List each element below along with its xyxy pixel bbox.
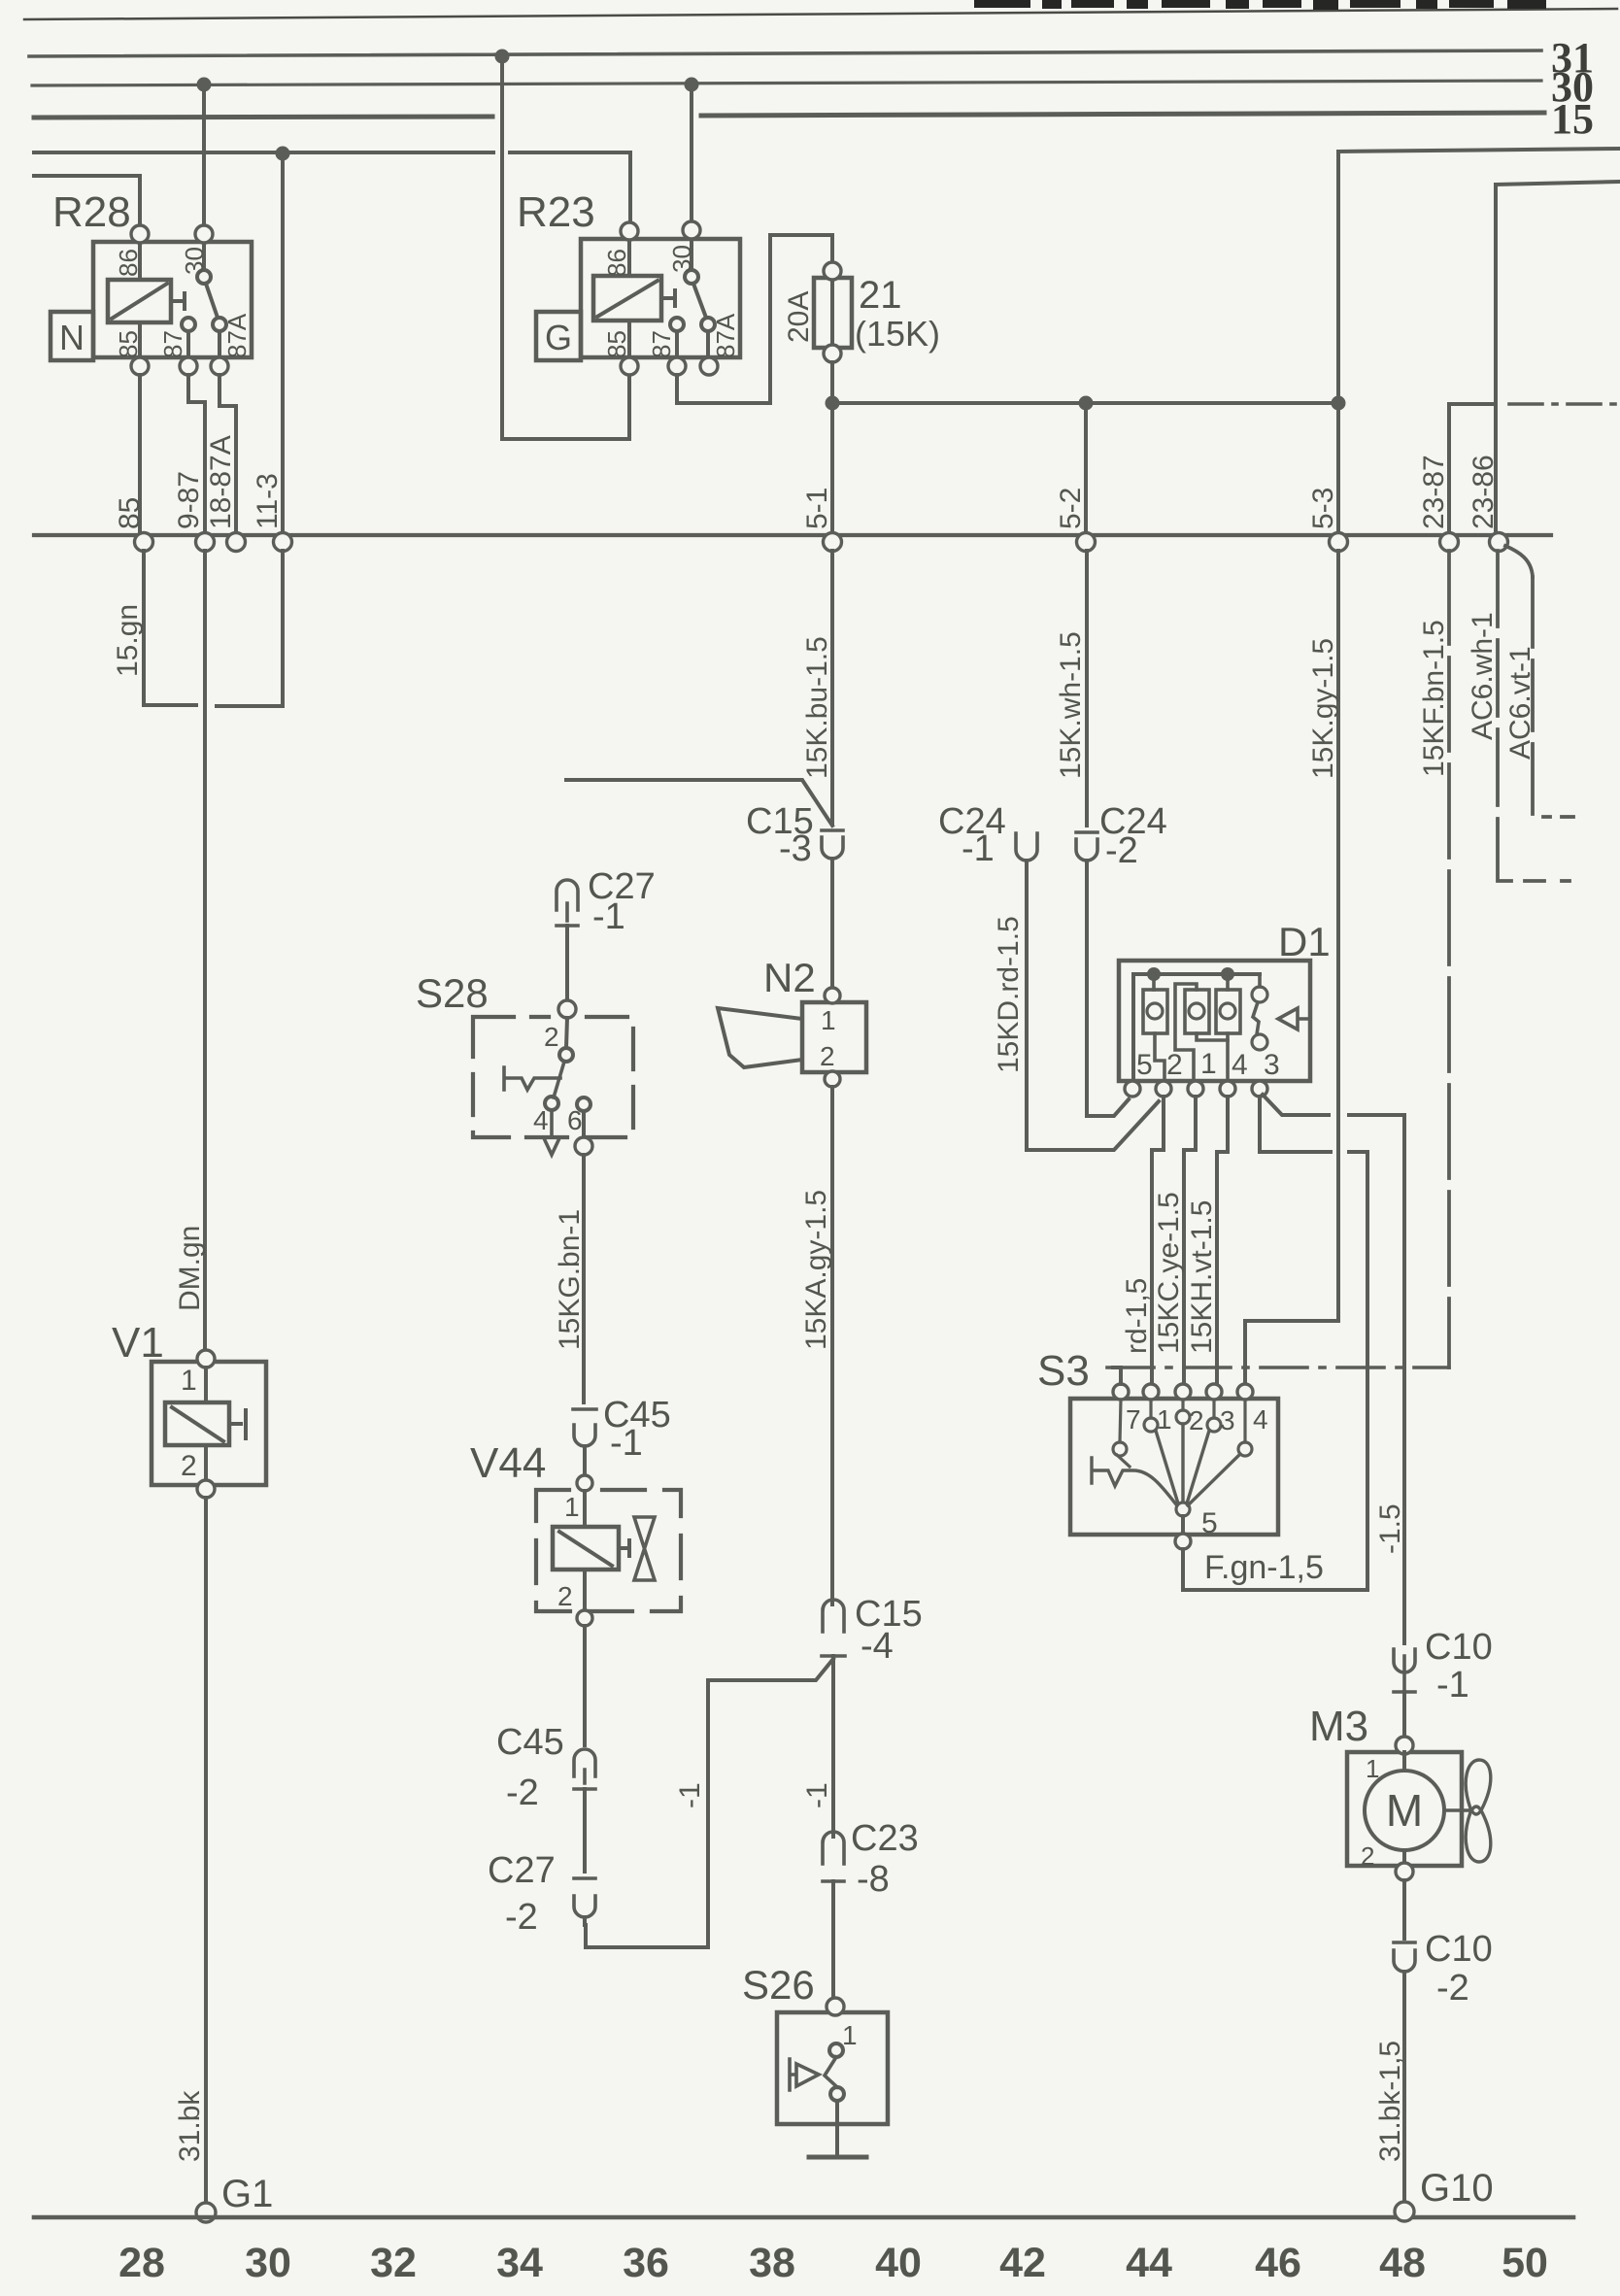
svg-text:AC6.vt-1: AC6.vt-1 bbox=[1504, 646, 1536, 760]
svg-text:-8: -8 bbox=[857, 1859, 890, 1900]
switch S28 thermal element bbox=[504, 1067, 560, 1090]
svg-text:S26: S26 bbox=[742, 1962, 815, 2008]
svg-text:1: 1 bbox=[564, 1492, 580, 1522]
valve V44 bottom terminal bbox=[577, 1610, 592, 1626]
D1 resistor a bbox=[1143, 990, 1167, 1033]
connector C15-4 bbox=[822, 1600, 845, 1656]
top right feeder y190 bbox=[1496, 182, 1620, 185]
svg-text:-1: -1 bbox=[1436, 1665, 1469, 1705]
relay R28 top terminals bbox=[131, 225, 149, 243]
svg-text:2: 2 bbox=[1361, 1841, 1374, 1871]
dashed wire AC6.wh bbox=[1498, 551, 1544, 881]
svg-text:R28: R28 bbox=[52, 188, 131, 236]
svg-text:-2: -2 bbox=[506, 1773, 539, 1813]
bus connector 9-87 bbox=[196, 533, 215, 552]
switch S28 pin6 wire bbox=[582, 1111, 586, 1137]
svg-text:R23: R23 bbox=[517, 188, 595, 236]
wire -1.5 to C10-1 bbox=[1402, 1641, 1406, 1645]
wire C15-3 to N2 bbox=[830, 859, 834, 988]
S3 wiper arms bbox=[1156, 1424, 1240, 1505]
R23 pin labels bbox=[602, 245, 740, 358]
switch S28 pin4 arrow terminal bbox=[545, 1110, 558, 1155]
connector C24-2 bbox=[1076, 832, 1097, 861]
svg-text:28: 28 bbox=[118, 2240, 165, 2286]
valve V44 top terminal bbox=[577, 1475, 592, 1491]
svg-text:-2: -2 bbox=[1436, 1968, 1469, 2009]
wire 15KG.bn to C45-1 bbox=[582, 1155, 586, 1402]
svg-text:2: 2 bbox=[820, 1041, 835, 1071]
switch S26 contacts bbox=[829, 2043, 843, 2057]
svg-text:F.gn-1,5: F.gn-1,5 bbox=[1204, 1549, 1324, 1586]
wire 15K.gy from bus to S3 pin4 bbox=[1245, 551, 1338, 1384]
relay R23 coil bbox=[593, 276, 661, 321]
wire 5-2 drop bbox=[1084, 403, 1088, 531]
blower motor M3 top terminal bbox=[1396, 1737, 1413, 1754]
wire R28 87A down jog bbox=[219, 375, 236, 531]
svg-text:2: 2 bbox=[1189, 1405, 1204, 1435]
wire R23 87 to fuse top bbox=[677, 235, 832, 403]
feeder line y157 bbox=[34, 152, 630, 223]
dash-dot option boundary y1408 bbox=[1107, 1366, 1449, 1369]
junction dot fuse bbox=[826, 396, 840, 411]
svg-text:1: 1 bbox=[1200, 1048, 1217, 1080]
relay R28 coil bbox=[108, 280, 171, 322]
wire R23 pin30 from line30 bbox=[690, 84, 693, 221]
S3 wiper contacts bbox=[1113, 1442, 1127, 1456]
junction dot line30 R23 bbox=[685, 78, 699, 92]
svg-text:5-3: 5-3 bbox=[1307, 488, 1339, 529]
connector C10-2 bbox=[1394, 1942, 1415, 1972]
S3 pin7 stub to option line bbox=[1113, 1367, 1121, 1384]
feeder line y181 to R28 pin86 bbox=[34, 176, 140, 225]
svg-text:4: 4 bbox=[1232, 1049, 1248, 1081]
svg-text:30: 30 bbox=[245, 2240, 291, 2286]
svg-text:48: 48 bbox=[1379, 2240, 1426, 2286]
feeder rail y415 bbox=[832, 401, 1338, 405]
wire R28 87 down jog bbox=[188, 375, 205, 531]
wire R28 85 down bbox=[138, 375, 142, 531]
svg-text:S3: S3 bbox=[1037, 1347, 1090, 1395]
S3 illumination element bbox=[1092, 1458, 1176, 1504]
top right feeder y157 bbox=[1338, 149, 1620, 152]
wire C45-1 to V44 bbox=[583, 1446, 587, 1475]
svg-text:15.gn: 15.gn bbox=[112, 604, 144, 677]
wire 31.bk-1.5 to G10 bbox=[1402, 1972, 1406, 2202]
svg-text:46: 46 bbox=[1255, 2240, 1301, 2286]
switch S28 top terminal bbox=[558, 1000, 576, 1018]
header separator line bbox=[24, 9, 1617, 19]
wire R23 drop from line31 bbox=[502, 56, 629, 439]
relay R28 pin85 internal bbox=[138, 322, 142, 357]
D1 pin5 internal bbox=[1131, 974, 1135, 1081]
relay R28 coil actuator stub bbox=[171, 293, 185, 309]
wire 23-87 stub bbox=[1449, 404, 1496, 531]
D1 thermal switch bbox=[1252, 987, 1267, 1002]
main bus y551 bbox=[34, 533, 1551, 537]
connector C23-8 bbox=[823, 1832, 844, 1881]
D1 internal top bus bbox=[1133, 972, 1260, 976]
bus line 15 bbox=[34, 113, 1544, 118]
relay R23 pin85 internal bbox=[627, 321, 631, 357]
wire D1 pin2 to S3 pin1 bbox=[1152, 1097, 1164, 1384]
svg-text:C27: C27 bbox=[488, 1850, 556, 1891]
relay R28 switch bbox=[197, 270, 211, 284]
svg-text:V44: V44 bbox=[470, 1439, 546, 1487]
svg-text:3: 3 bbox=[1264, 1049, 1280, 1081]
bus connector 5-1 bbox=[824, 533, 842, 552]
wire D1 pin4 to S3 pin3 bbox=[1217, 1097, 1228, 1384]
wire C15-4 to C23-8 bbox=[831, 1656, 835, 1837]
svg-text:42: 42 bbox=[999, 2240, 1046, 2286]
connector C24-1 cup bbox=[1016, 833, 1037, 861]
wire 15K.wh to D1 pin5 bbox=[1087, 861, 1129, 1116]
connector C27-2 bbox=[574, 1878, 595, 1917]
fuse 21 body bbox=[814, 278, 852, 348]
svg-text:18-87A: 18-87A bbox=[205, 435, 237, 529]
svg-text:-1: -1 bbox=[592, 896, 625, 937]
horn N2 box bbox=[802, 1002, 866, 1072]
dash-dot boundary y416 bbox=[1509, 402, 1620, 406]
bus connector 23-86 bbox=[1490, 533, 1508, 552]
svg-text:1: 1 bbox=[181, 1365, 197, 1397]
wire M3 to C10-2 bbox=[1402, 1880, 1406, 1939]
bus wire labels above bbox=[114, 435, 1500, 529]
svg-text:87: 87 bbox=[158, 330, 187, 358]
D1 pin labels bbox=[1136, 1048, 1280, 1081]
wire C27-1 to S28 bbox=[565, 926, 569, 1001]
svg-text:5-1: 5-1 bbox=[801, 488, 833, 529]
svg-text:V1: V1 bbox=[112, 1319, 164, 1367]
junction dot 5-2 bbox=[1079, 396, 1094, 411]
R28 pin labels bbox=[114, 247, 252, 358]
wire V44 to C45-2 bbox=[583, 1626, 587, 1745]
connector C45-1 bbox=[573, 1409, 596, 1446]
ground terminal G1 bbox=[196, 2203, 216, 2222]
solenoid V1 top terminal bbox=[197, 1350, 215, 1367]
bus connector 23-87 bbox=[1440, 533, 1459, 552]
wire F.gn S3 pin5 to riser bbox=[1183, 1549, 1367, 1590]
svg-text:87A: 87A bbox=[222, 313, 252, 358]
relay R28 box bbox=[93, 242, 252, 357]
wire labels below bus bbox=[112, 604, 1536, 779]
svg-text:23-86: 23-86 bbox=[1468, 455, 1500, 529]
S3 pin labels bbox=[1126, 1404, 1268, 1539]
svg-text:rd-1,5: rd-1,5 bbox=[1121, 1278, 1153, 1354]
junction dot 11-3 bbox=[276, 147, 290, 161]
svg-text:-2: -2 bbox=[1105, 830, 1138, 871]
connector C27-1 bbox=[557, 880, 578, 926]
svg-text:6: 6 bbox=[567, 1105, 583, 1135]
valve V44 dashed box bbox=[536, 1490, 681, 1611]
wire 23-86 drop bbox=[1494, 185, 1498, 531]
svg-text:20A: 20A bbox=[783, 291, 815, 343]
svg-text:5: 5 bbox=[1201, 1507, 1218, 1539]
svg-text:3: 3 bbox=[1220, 1405, 1235, 1435]
blower motor M3 fan bbox=[1444, 1808, 1468, 1812]
svg-text:M: M bbox=[1386, 1785, 1423, 1836]
D1 resistor c bbox=[1216, 990, 1240, 1033]
svg-text:1: 1 bbox=[842, 2020, 858, 2050]
svg-text:AC6.wh-1: AC6.wh-1 bbox=[1467, 612, 1499, 740]
junction dot 5-3 bbox=[1332, 396, 1346, 411]
svg-text:87: 87 bbox=[647, 330, 676, 358]
svg-text:1: 1 bbox=[821, 1005, 836, 1035]
svg-text:1: 1 bbox=[1366, 1754, 1379, 1783]
wire 15KD.rd to D1 pin2 bbox=[1027, 861, 1159, 1150]
valve V44 valve symbol bbox=[634, 1517, 655, 1580]
D1 resistor b bbox=[1185, 990, 1209, 1033]
wire C10-1 to M3 bbox=[1402, 1692, 1406, 1738]
horn N2 terminals bbox=[825, 988, 840, 1003]
relay R28 pin86 internal bbox=[138, 242, 142, 280]
wire D1 pin3 to M3 bbox=[1263, 1095, 1404, 1643]
blower switch S3 box bbox=[1070, 1399, 1278, 1535]
svg-text:2: 2 bbox=[181, 1450, 197, 1482]
svg-text:32: 32 bbox=[370, 2240, 417, 2286]
svg-text:86: 86 bbox=[602, 249, 631, 277]
svg-text:15KG.bn-1: 15KG.bn-1 bbox=[554, 1209, 586, 1350]
svg-text:M3: M3 bbox=[1309, 1703, 1368, 1750]
svg-text:50: 50 bbox=[1502, 2240, 1548, 2286]
wire fuse to bus 5-1 bbox=[830, 362, 834, 531]
svg-text:2: 2 bbox=[557, 1581, 573, 1611]
bottom coordinate scale bbox=[118, 2240, 1548, 2286]
svg-text:-1: -1 bbox=[610, 1423, 643, 1464]
relay R23 box bbox=[581, 239, 740, 357]
switch S26 box bbox=[777, 2012, 888, 2124]
svg-text:15KD.rd-1.5: 15KD.rd-1.5 bbox=[993, 916, 1025, 1073]
S3 pin5 bbox=[1181, 1516, 1185, 1535]
bus connector 11-3 bbox=[274, 533, 292, 552]
blower motor M3 armature bbox=[1365, 1771, 1444, 1850]
svg-text:-1: -1 bbox=[674, 1782, 706, 1808]
connector C10-1 bbox=[1394, 1649, 1415, 1709]
horn N2 trumpet bbox=[718, 1008, 802, 1067]
ground terminal G10 bbox=[1395, 2202, 1414, 2221]
dashed wire AC6.vt bbox=[1505, 546, 1533, 577]
S3 top terminals bbox=[1113, 1384, 1129, 1400]
wire R28 pin30 from line30 bbox=[202, 84, 206, 225]
svg-text:15KC.ye-1.5: 15KC.ye-1.5 bbox=[1153, 1192, 1185, 1354]
svg-text:-2: -2 bbox=[505, 1897, 538, 1938]
relay R23 top terminals bbox=[621, 222, 638, 240]
svg-text:30: 30 bbox=[667, 245, 696, 273]
svg-text:23-87: 23-87 bbox=[1418, 455, 1450, 529]
svg-text:36: 36 bbox=[623, 2240, 669, 2286]
svg-text:40: 40 bbox=[875, 2240, 922, 2286]
svg-text:21: 21 bbox=[859, 274, 902, 317]
header title fragments bbox=[974, 0, 1546, 10]
svg-text:C10: C10 bbox=[1425, 1929, 1493, 1970]
svg-text:G: G bbox=[545, 318, 572, 357]
connector C15-3 bbox=[822, 830, 843, 859]
svg-text:9-87: 9-87 bbox=[173, 471, 205, 529]
fuse 21 terminals bbox=[824, 262, 841, 280]
valve V44 coil bbox=[553, 1527, 619, 1570]
svg-text:C45: C45 bbox=[496, 1722, 564, 1763]
svg-text:(15K): (15K) bbox=[855, 314, 940, 354]
wire C27-2 tail bbox=[583, 1917, 587, 1925]
wire C45-2 to C27-2 bbox=[583, 1789, 587, 1872]
switch S28 contacts bbox=[566, 1018, 567, 1048]
svg-text:7: 7 bbox=[1126, 1404, 1141, 1435]
bus connector 85 bbox=[135, 533, 153, 552]
svg-text:4: 4 bbox=[1253, 1404, 1268, 1435]
bus connector 18-87A bbox=[227, 533, 246, 552]
svg-text:86: 86 bbox=[114, 249, 143, 277]
svg-text:5: 5 bbox=[1136, 1049, 1153, 1081]
switch S28 dashed box bbox=[473, 1017, 633, 1137]
svg-text:DM.gn: DM.gn bbox=[174, 1226, 206, 1311]
connector C45-2 bbox=[574, 1749, 595, 1789]
svg-text:4: 4 bbox=[533, 1105, 549, 1135]
svg-text:34: 34 bbox=[496, 2240, 543, 2286]
switch S28 pin6 terminal bbox=[575, 1137, 592, 1155]
svg-text:C23: C23 bbox=[851, 1818, 919, 1859]
wire branch -1 loop bbox=[586, 1659, 833, 1947]
ground bus bottom bbox=[34, 2215, 1573, 2220]
svg-text:85: 85 bbox=[602, 330, 631, 358]
svg-text:2: 2 bbox=[544, 1022, 559, 1052]
svg-text:-1.5: -1.5 bbox=[1374, 1503, 1406, 1554]
bus connector 5-2 bbox=[1077, 533, 1096, 552]
relay R23 G box bbox=[536, 312, 581, 360]
svg-text:30: 30 bbox=[180, 247, 209, 275]
svg-text:-1: -1 bbox=[801, 1782, 833, 1808]
wire C23-8 to S26 bbox=[831, 1881, 835, 1999]
svg-text:S28: S28 bbox=[416, 970, 489, 1016]
relay R23 switch bbox=[685, 270, 698, 284]
switch S26 pushbutton actuator bbox=[790, 2059, 819, 2090]
fuse 21 element bbox=[830, 271, 834, 354]
relay R23 pin86 internal bbox=[627, 239, 631, 276]
bus line 31 bbox=[29, 51, 1541, 56]
wire D1 pin3 to F.gn riser bbox=[1260, 1097, 1367, 1590]
bus line 30 bbox=[32, 81, 1541, 85]
wire 5-3 riser bbox=[1336, 152, 1340, 531]
svg-text:44: 44 bbox=[1126, 2240, 1172, 2286]
blower resistor D1 box bbox=[1119, 961, 1310, 1081]
relay R23 bottom terminals bbox=[621, 357, 638, 375]
wire from S28 top to C15-3 bbox=[566, 780, 832, 826]
valve V44 actuator stub bbox=[619, 1540, 629, 1556]
D1 bottom terminals bbox=[1125, 1081, 1140, 1097]
svg-text:15K.gy-1.5: 15K.gy-1.5 bbox=[1307, 638, 1339, 779]
wire 11-3 down bbox=[281, 153, 285, 531]
svg-text:15KF.bn-1.5: 15KF.bn-1.5 bbox=[1418, 620, 1450, 777]
svg-text:85: 85 bbox=[114, 330, 143, 358]
blower motor M3 bottom terminal bbox=[1396, 1863, 1413, 1880]
svg-text:5-2: 5-2 bbox=[1055, 488, 1087, 529]
wire 15K.bu from bus bbox=[830, 551, 834, 824]
solenoid V1 actuator stub bbox=[229, 1410, 246, 1438]
wire 31.bk V1 to G1 bbox=[204, 1498, 208, 2203]
svg-text:-4: -4 bbox=[861, 1626, 894, 1667]
svg-text:N2: N2 bbox=[763, 955, 816, 1000]
svg-text:2: 2 bbox=[1166, 1049, 1183, 1081]
bus connector 5-3 bbox=[1330, 533, 1348, 552]
svg-text:C10: C10 bbox=[1425, 1627, 1493, 1668]
svg-text:11-3: 11-3 bbox=[252, 473, 284, 529]
svg-text:85: 85 bbox=[114, 497, 146, 529]
svg-text:-3: -3 bbox=[779, 828, 812, 869]
wire 15KA.gy N2 to C15-4 bbox=[830, 1087, 834, 1604]
relay R28 N box bbox=[51, 312, 93, 360]
svg-text:38: 38 bbox=[749, 2240, 795, 2286]
svg-text:15: 15 bbox=[1551, 95, 1594, 143]
svg-text:15KH.vt-1.5: 15KH.vt-1.5 bbox=[1186, 1200, 1218, 1354]
svg-text:-1: -1 bbox=[962, 828, 995, 869]
dashed wire 15KF.bn bbox=[1447, 551, 1451, 1367]
relay R28 bottom terminals bbox=[131, 357, 149, 375]
svg-text:N: N bbox=[59, 318, 84, 357]
relay R23 coil actuator stub bbox=[661, 290, 675, 306]
svg-text:G1: G1 bbox=[221, 2173, 273, 2215]
solenoid V1 coil bbox=[165, 1402, 229, 1445]
svg-text:31.bk: 31.bk bbox=[174, 2090, 206, 2162]
svg-text:D1: D1 bbox=[1278, 919, 1331, 964]
junction dot line31 bbox=[495, 50, 510, 64]
ground bar S26 bbox=[809, 2155, 866, 2160]
wire D1 pin1 to S3 pin2 bbox=[1184, 1097, 1196, 1384]
junction dot line30 R28 bbox=[197, 78, 212, 92]
wire 15.gn net bbox=[144, 551, 283, 706]
svg-text:1: 1 bbox=[1157, 1404, 1172, 1435]
svg-text:15K.wh-1.5: 15K.wh-1.5 bbox=[1055, 631, 1087, 779]
solenoid V1 bottom terminal bbox=[197, 1480, 215, 1498]
solenoid V1 box bbox=[152, 1362, 266, 1485]
svg-text:G10: G10 bbox=[1420, 2167, 1494, 2210]
wire 15K.wh from bus to C24-2 bbox=[1085, 551, 1089, 826]
blower motor M3 box bbox=[1347, 1752, 1462, 1866]
svg-text:15K.bu-1.5: 15K.bu-1.5 bbox=[801, 636, 833, 779]
svg-text:15KA.gy-1.5: 15KA.gy-1.5 bbox=[800, 1190, 832, 1350]
switch S26 terminal bbox=[827, 1998, 844, 2015]
svg-text:31.bk-1,5: 31.bk-1,5 bbox=[1374, 2041, 1406, 2162]
wire S26 to ground bbox=[835, 2101, 839, 2155]
svg-text:87A: 87A bbox=[711, 313, 740, 358]
wire DM.gn down to V1 bbox=[203, 551, 207, 1350]
